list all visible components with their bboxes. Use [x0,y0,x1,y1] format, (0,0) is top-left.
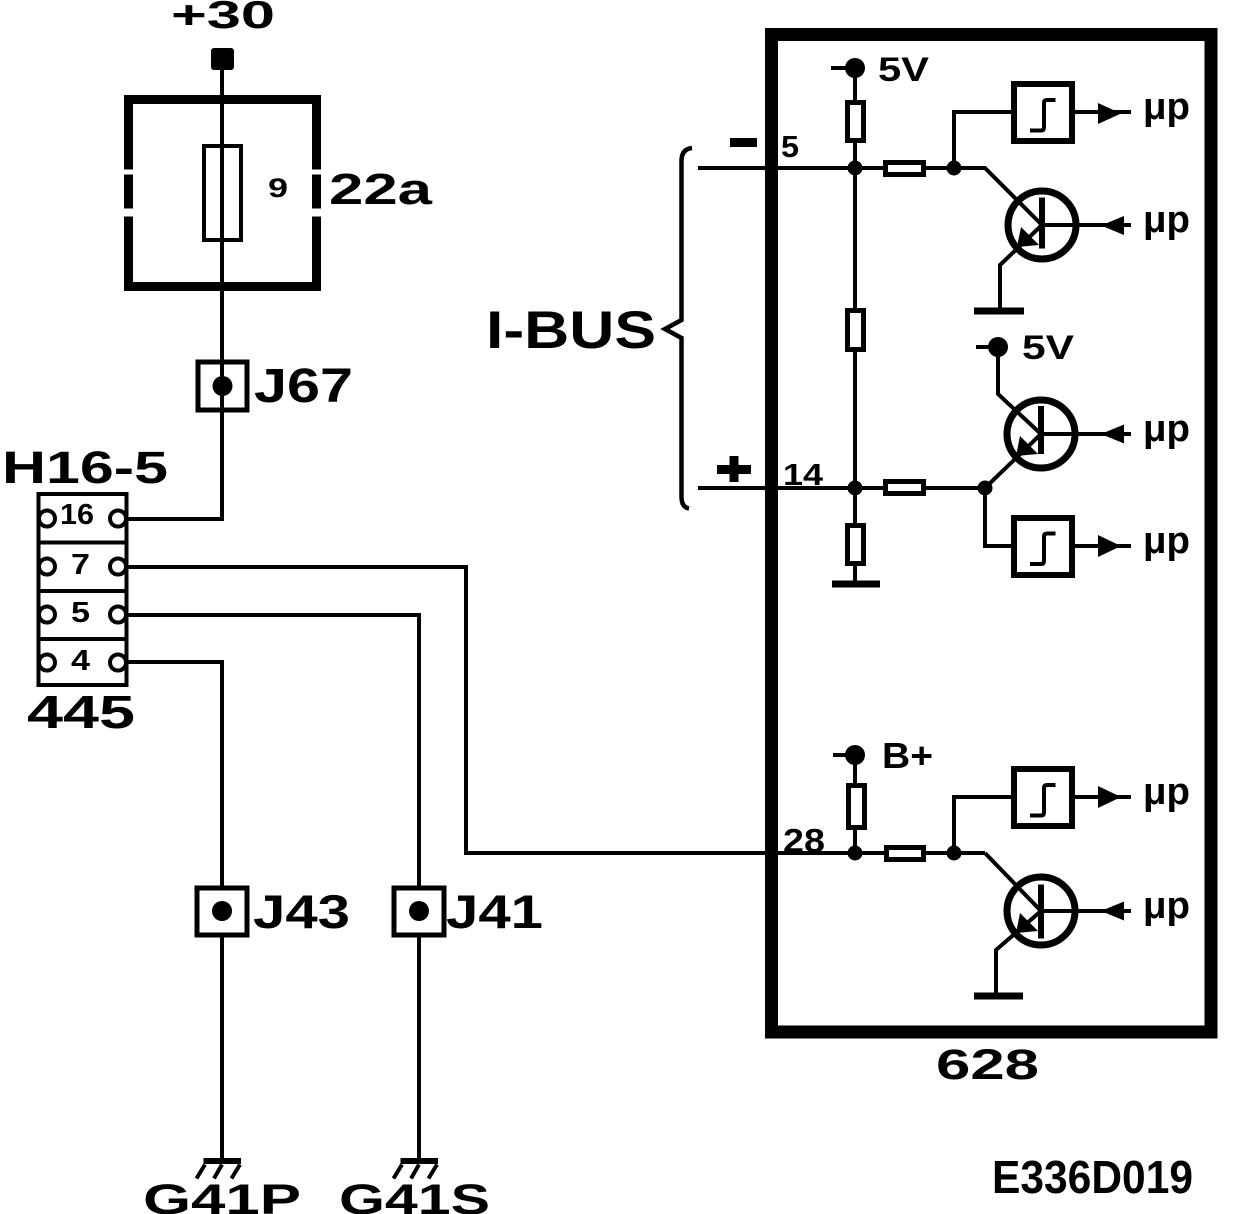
junction J41 [394,888,444,935]
wire junction to comparator U3 [954,797,1012,853]
ground G41S symbol [394,1158,439,1179]
node junction minus line after resistor [947,161,962,176]
I-BUS bracket [665,148,692,509]
wire transistor Q3 emitter to ground [996,911,1041,994]
resistor R4 (minus line series) [886,163,924,175]
resistor R2 (bus divider middle) [848,311,864,350]
node 5V mid [988,337,1008,357]
wire comparator U2 output [1075,544,1131,548]
wire comparator U1 output [1075,110,1131,114]
comparator U2 [1014,518,1072,575]
svg-text:E336D019: E336D019 [992,1151,1193,1203]
arrow microprocessor to transistor Q2 [1101,425,1124,444]
svg-text:+30: +30 [171,0,275,37]
svg-text:B+: B+ [882,735,933,776]
svg-text:5: 5 [781,129,799,164]
arrow microprocessor to transistor Q1 [1101,216,1124,235]
wire base lead to transistor Q1 [954,168,1042,225]
arrow comparator U2 output to microprocessor [1098,535,1121,557]
wire I-BUS minus line pin 5 [698,166,954,170]
minus sign I-BUS [730,138,757,147]
node B+ [845,745,865,765]
arrow comparator U1 output to microprocessor [1098,103,1121,124]
svg-text:628: 628 [936,1041,1039,1089]
svg-text:G41P: G41P [143,1176,301,1214]
wire H16-5 pin 4 to J43 [126,662,222,888]
wire H16-5 pin 5 to J41 [126,615,419,888]
ground internal 2 (divider bottom) [832,581,880,588]
transistor Q2 emitter arrow [1016,436,1038,456]
ground G41P symbol [197,1158,242,1179]
fuse holder box 22a (dashed) [124,95,321,291]
wire I-BUS plus line pin 14 [698,486,985,490]
node 5V top [845,58,865,78]
arrow comparator U3 output to microprocessor [1098,786,1121,808]
transistor Q1 [1008,191,1076,259]
svg-text:H16-5: H16-5 [2,442,168,493]
svg-text:μp: μp [1143,408,1190,450]
junction J43 [197,888,247,935]
resistor R5 (plus line series) [886,482,924,494]
junction J67 [198,362,247,410]
wire transistor Q1 emitter to ground [1000,225,1042,309]
svg-text:16: 16 [60,499,94,531]
resistor R6 (B+ pull-up) [849,786,865,828]
svg-text:445: 445 [27,686,135,738]
wire pin 28 line to transistor Q3 [985,853,1041,911]
svg-text:14: 14 [783,457,824,492]
svg-text:4: 4 [71,645,90,677]
wire transistor Q1 collector to microprocessor [1042,223,1131,227]
svg-text:I-BUS: I-BUS [486,301,656,360]
node junction plus line after resistor [978,481,993,496]
svg-text:7: 7 [71,549,90,581]
svg-text:G41S: G41S [339,1176,490,1214]
svg-text:μp: μp [1143,520,1190,562]
comparator U3 [1014,769,1072,826]
wire H16-5 pin 7 to 628 pin 28 [126,567,985,853]
node junction pin 28 after resistor [947,846,962,861]
connector H16-5 body [39,494,127,685]
connector H16-5 pin contacts [39,511,126,671]
resistor R3 (pull-down, plus line) [848,526,864,564]
node junction plus line at divider [848,481,863,496]
transistor Q3 [1007,877,1075,945]
wire B+ column pin 28 [833,755,855,853]
svg-text:μp: μp [1143,86,1190,128]
svg-text:μp: μp [1143,885,1190,927]
transistor Q1 emitter arrow [1017,227,1039,247]
svg-text:5: 5 [71,597,90,629]
plus sign I-BUS [717,456,751,482]
ground internal 1 (Q1 emitter) [974,308,1024,315]
svg-text:μp: μp [1143,771,1190,813]
svg-text:J43: J43 [253,885,350,938]
wire junction to comparator U2 [985,488,1012,546]
node junction minus line at divider [848,161,863,176]
wire comparator U3 output [1075,795,1131,799]
wire transistor Q2 emitter to plus line junction [985,434,1041,488]
resistor R1 (5V pull-up, minus line) [848,103,864,141]
svg-text:28: 28 [783,822,825,859]
ground internal 3 (Q3 emitter) [974,993,1023,1000]
fuse element 9 [204,146,241,240]
svg-text:5V: 5V [878,51,929,89]
transistor Q2 [1007,400,1075,468]
wire 5V supply to transistor Q2 [976,347,1041,434]
svg-text:μp: μp [1143,199,1190,241]
wire junction to comparator U1 [954,112,1012,168]
arrow microprocessor to transistor Q3 [1101,902,1124,921]
wire J41 to ground G41S [417,935,421,1160]
svg-text:J67: J67 [254,360,353,413]
wire J43 to ground G41P [220,935,224,1160]
svg-text:5V: 5V [1022,329,1074,367]
transistor Q3 emitter arrow [1016,913,1038,933]
ECU box 628 [772,35,1212,1033]
wire transistor Q3 collector to microprocessor [1041,909,1131,913]
comparator U1 [1014,84,1072,141]
svg-text:22a: 22a [329,165,433,214]
svg-text:9: 9 [268,173,288,203]
battery terminal +30 [211,48,234,70]
wire 5V tick top [831,66,855,70]
node junction pin 28 at B+ column [848,846,863,861]
wire 5V rail vertical divider column [853,68,857,583]
resistor R7 (pin 28 series) [887,848,924,860]
wire +30 terminal to fuse 22a to J67 to H16-5 pin 16 [126,70,222,519]
wire transistor Q2 collector to microprocessor [1041,432,1131,436]
svg-text:J41: J41 [446,885,543,938]
